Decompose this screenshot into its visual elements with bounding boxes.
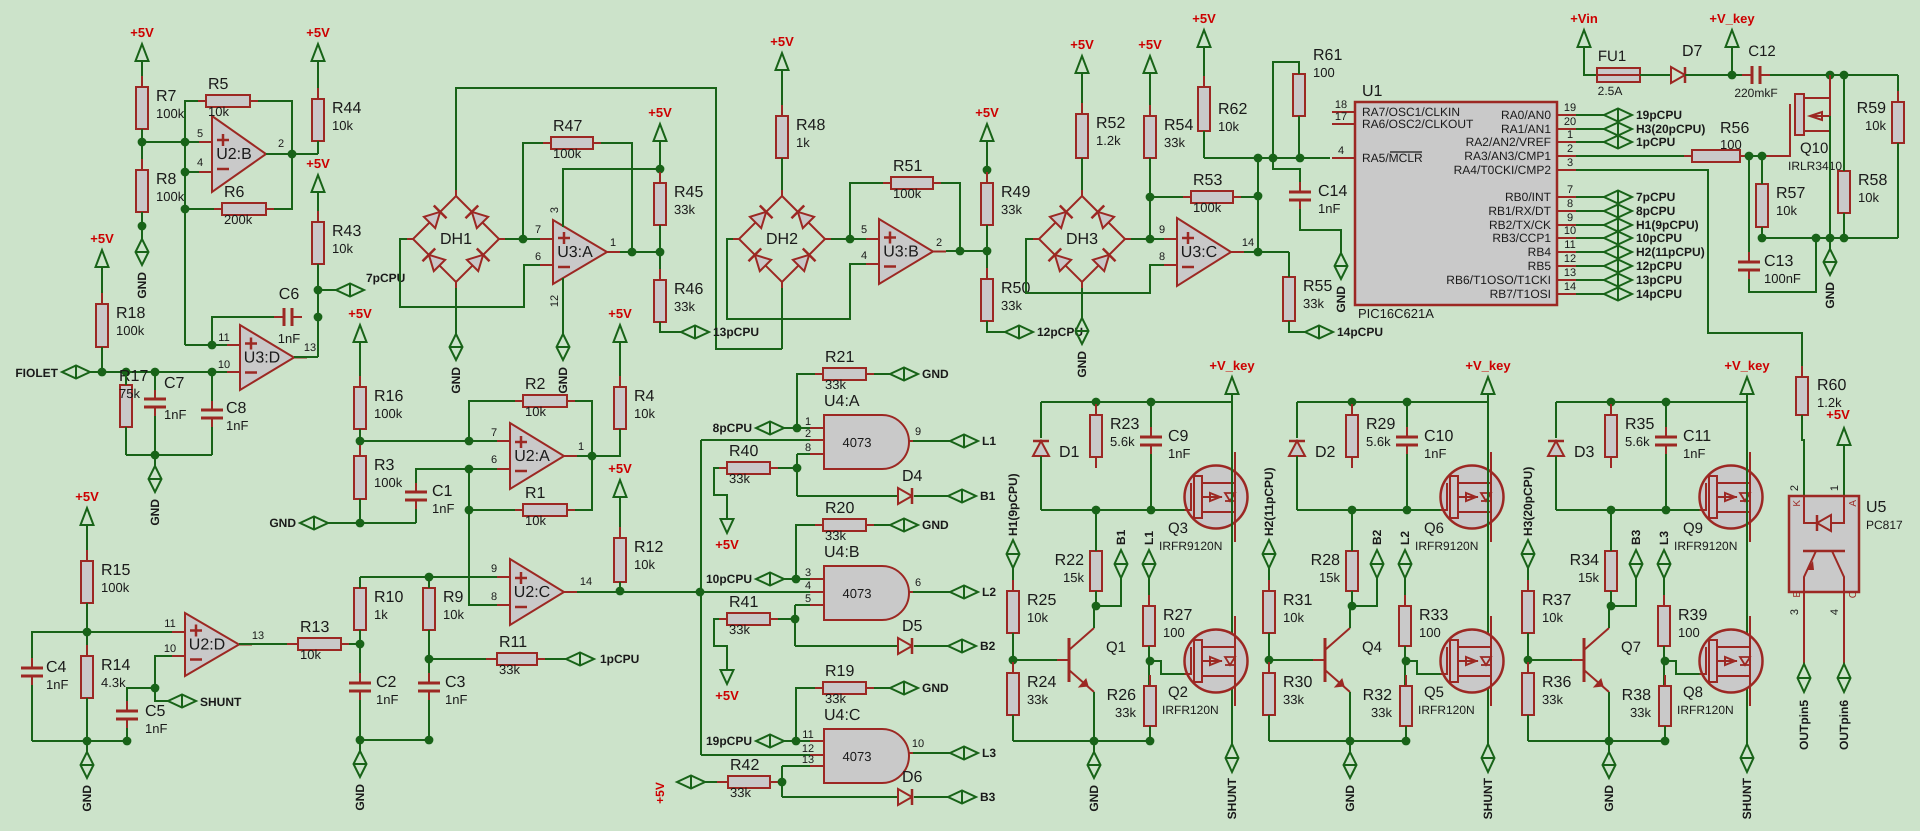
- svg-text:R59: R59: [1857, 100, 1886, 117]
- capacitor C7: [154, 389, 156, 398]
- svg-text:C14: C14: [1318, 183, 1347, 200]
- resistor R21: [812, 373, 823, 375]
- svg-text:+5V: +5V: [130, 25, 154, 40]
- svg-text:9: 9: [1159, 224, 1165, 236]
- svg-text:5.6k: 5.6k: [1366, 434, 1391, 449]
- pin 9 RB2/TX/CK: [1557, 224, 1576, 226]
- svg-text:B3: B3: [980, 790, 996, 804]
- wire pin 4: [1843, 592, 1845, 664]
- svg-text:B2: B2: [1370, 529, 1384, 545]
- ground (stage Q9): [1608, 741, 1610, 752]
- resistor R57: [1761, 173, 1763, 184]
- resistor R27: [1148, 595, 1150, 606]
- wire pin 4 net: [1204, 157, 1330, 159]
- wire: [1012, 633, 1014, 673]
- wire: [1296, 456, 1298, 510]
- wire: [660, 322, 681, 332]
- svg-text:GND: GND: [1343, 785, 1357, 812]
- svg-text:L3: L3: [982, 746, 996, 760]
- net flag L2: [950, 586, 978, 599]
- svg-text:8: 8: [1567, 198, 1573, 210]
- wire gnd rail: [360, 739, 429, 741]
- wire pin 3: [563, 169, 660, 227]
- wire output 13: [239, 643, 298, 645]
- svg-text:E: E: [1792, 591, 1803, 598]
- svg-text:RA4/T0CKI/CMP2: RA4/T0CKI/CMP2: [1454, 163, 1552, 177]
- net flag 1pCPU: [1576, 141, 1604, 143]
- svg-text:Q8: Q8: [1683, 684, 1703, 701]
- wire DH3 right: [1131, 238, 1164, 240]
- svg-text:DH3: DH3: [1066, 231, 1098, 248]
- svg-text:33k: 33k: [1542, 692, 1563, 707]
- net flag SHUNT (stage Q3): [1226, 744, 1239, 772]
- resistor R6: [211, 208, 222, 210]
- svg-text:15k: 15k: [1319, 570, 1340, 585]
- net flag GND (R20): [890, 519, 918, 532]
- wire gnd rail: [126, 454, 212, 456]
- wire gate: [1150, 661, 1185, 674]
- svg-text:33k: 33k: [1001, 202, 1022, 217]
- svg-text:R40: R40: [729, 443, 758, 460]
- svg-text:H3(20pCPU): H3(20pCPU): [1636, 122, 1705, 136]
- svg-text:2: 2: [1789, 485, 1801, 491]
- resistor R34: [1610, 540, 1612, 551]
- svg-text:H3(20pCPU): H3(20pCPU): [1521, 467, 1535, 536]
- svg-text:R18: R18: [116, 305, 145, 322]
- wire collector: [1350, 606, 1352, 628]
- svg-text:+5V: +5V: [608, 461, 632, 476]
- svg-text:14pCPU: 14pCPU: [1636, 287, 1682, 301]
- svg-text:7: 7: [1567, 184, 1573, 196]
- svg-text:R1: R1: [525, 485, 546, 502]
- svg-text:R9: R9: [443, 589, 464, 606]
- svg-text:1: 1: [610, 237, 616, 249]
- pin 2 RA3/AN3/CMP1: [1557, 155, 1576, 157]
- svg-text:+5V: +5V: [975, 105, 999, 120]
- svg-text:10k: 10k: [634, 406, 655, 421]
- svg-text:2: 2: [805, 428, 811, 440]
- svg-text:7pCPU: 7pCPU: [1636, 190, 1675, 204]
- svg-text:8pCPU: 8pCPU: [713, 421, 752, 435]
- svg-text:IRFR120N: IRFR120N: [1418, 703, 1475, 717]
- wire pin 5: [142, 141, 199, 143]
- net flag 7pCPU: [336, 284, 364, 297]
- wire emitter: [1608, 692, 1610, 741]
- svg-text:RB2/TX/CK: RB2/TX/CK: [1489, 218, 1551, 232]
- svg-text:5: 5: [197, 128, 203, 140]
- wire: [101, 347, 103, 372]
- resistor R51: [880, 182, 891, 184]
- pin 12 RB5: [1557, 265, 1576, 267]
- pin 18 RA7/OSC1/CLKIN: [1332, 111, 1355, 113]
- svg-text:C6: C6: [279, 286, 300, 303]
- svg-text:FIOLET: FIOLET: [15, 366, 58, 380]
- svg-text:14pCPU: 14pCPU: [1337, 325, 1383, 339]
- wire collector: [1609, 606, 1611, 628]
- svg-text:L3: L3: [1657, 531, 1671, 545]
- op-amp U3:D: [240, 325, 294, 390]
- svg-text:SHUNT: SHUNT: [1481, 777, 1495, 819]
- svg-text:33k: 33k: [825, 691, 846, 706]
- wire +V_key rail: [1556, 401, 1747, 403]
- wire: [914, 796, 948, 798]
- transistor Q1: [1068, 638, 1071, 682]
- svg-text:RB0/INT: RB0/INT: [1505, 190, 1552, 204]
- node C6 right: [314, 313, 323, 322]
- wire: [317, 264, 319, 357]
- resistor R32: [1405, 675, 1407, 686]
- node out U2:B: [288, 150, 297, 159]
- svg-text:GND: GND: [148, 499, 162, 526]
- node pin5 junction: [138, 138, 147, 147]
- op-amp U3:C: [1177, 218, 1231, 286]
- bridge DH3: [1039, 196, 1125, 282]
- svg-text:1k: 1k: [796, 135, 810, 150]
- svg-text:GND: GND: [449, 367, 463, 394]
- svg-text:1: 1: [578, 441, 584, 453]
- wire: [1406, 454, 1408, 510]
- svg-text:4: 4: [1829, 609, 1841, 615]
- resistor R50: [986, 268, 988, 279]
- resistor R24: [1012, 662, 1014, 673]
- capacitor C5: [126, 701, 128, 710]
- transistor Q5 IRFR120N: [1441, 630, 1504, 693]
- svg-text:H1(9pCPU): H1(9pCPU): [1636, 218, 1699, 232]
- resistor R30: [1268, 662, 1270, 673]
- wire R11 line: [429, 658, 489, 660]
- wire: [155, 688, 168, 701]
- resistor R13: [287, 643, 298, 645]
- resistor R12: [619, 527, 621, 538]
- resistor R35: [1610, 404, 1612, 415]
- wire: [796, 525, 815, 579]
- svg-text:100k: 100k: [156, 106, 185, 121]
- wire: [523, 143, 543, 239]
- wire: [359, 429, 361, 456]
- svg-text:GND: GND: [269, 516, 296, 530]
- svg-text:19pCPU: 19pCPU: [706, 734, 752, 748]
- resistor R7: [141, 76, 143, 87]
- wire: [714, 468, 727, 519]
- wire: [1527, 715, 1529, 741]
- wire: [1664, 726, 1666, 741]
- wire: [784, 427, 810, 429]
- svg-text:11: 11: [164, 618, 175, 630]
- svg-text:1: 1: [1567, 129, 1573, 141]
- wire: [1298, 116, 1300, 158]
- svg-text:R31: R31: [1283, 592, 1312, 609]
- svg-text:R33: R33: [1419, 607, 1448, 624]
- svg-text:1nF: 1nF: [1318, 201, 1340, 216]
- wire: [659, 225, 661, 280]
- wire: [428, 700, 430, 740]
- svg-text:6: 6: [535, 251, 541, 263]
- svg-text:L1: L1: [1142, 531, 1156, 545]
- wire: [1012, 715, 1014, 741]
- capacitor C10: [1406, 402, 1408, 428]
- svg-text:Q3: Q3: [1168, 520, 1188, 537]
- fuse FU1: [1597, 68, 1640, 82]
- svg-text:10k: 10k: [300, 647, 321, 662]
- ground (Q10): [1829, 238, 1831, 249]
- wire: [1095, 591, 1097, 606]
- wire: [1150, 454, 1152, 510]
- wire: [1288, 252, 1290, 277]
- resistor R19: [812, 687, 823, 689]
- wire: [1148, 646, 1150, 686]
- node R13/R10: [356, 640, 365, 649]
- svg-text:C1: C1: [432, 483, 453, 500]
- pin 4 RA5/MCLR: [1332, 157, 1355, 159]
- svg-text:GND: GND: [922, 518, 949, 532]
- net flag H1(9pCPU): [1576, 224, 1604, 226]
- svg-text:Q6: Q6: [1424, 520, 1444, 537]
- wire drain column: [1746, 402, 1748, 744]
- pin 8 RB1/RX/DT: [1557, 210, 1576, 212]
- svg-text:10k: 10k: [443, 607, 464, 622]
- pin 13 RB6/T1OSO/T1CKI: [1557, 279, 1576, 281]
- resistor R41: [716, 618, 727, 620]
- capacitor C4: [31, 658, 33, 667]
- svg-text:+5V: +5V: [648, 105, 672, 120]
- svg-text:+Vin: +Vin: [1570, 11, 1598, 26]
- svg-text:75k: 75k: [119, 386, 140, 401]
- svg-text:33k: 33k: [1371, 705, 1392, 720]
- svg-text:R49: R49: [1001, 184, 1030, 201]
- svg-text:10k: 10k: [208, 104, 229, 119]
- wire out 10: [913, 752, 950, 754]
- svg-text:R45: R45: [674, 184, 703, 201]
- wire gnd rail: [1013, 740, 1150, 742]
- ground (DH1): [455, 288, 457, 323]
- wire output 13: [294, 356, 318, 358]
- svg-text:4: 4: [861, 250, 867, 262]
- svg-text:14: 14: [1564, 281, 1576, 293]
- svg-text:R60: R60: [1817, 377, 1846, 394]
- svg-text:U5: U5: [1866, 499, 1887, 516]
- pin 11 RB4: [1557, 251, 1576, 253]
- resistor R8: [141, 159, 143, 170]
- svg-text:220mkF: 220mkF: [1734, 86, 1777, 100]
- svg-text:C2: C2: [376, 674, 397, 691]
- svg-text:GND: GND: [1602, 785, 1616, 812]
- resistor R38: [1664, 675, 1666, 686]
- wire pin 12 line: [701, 754, 810, 756]
- net flag L1: [950, 435, 978, 448]
- svg-text:+5V: +5V: [348, 306, 372, 321]
- svg-text:33k: 33k: [1027, 692, 1048, 707]
- resistor R1: [512, 509, 523, 511]
- svg-text:33k: 33k: [674, 202, 695, 217]
- wire: [1610, 510, 1612, 551]
- svg-text:33k: 33k: [1303, 296, 1324, 311]
- svg-text:C4: C4: [46, 659, 67, 676]
- svg-text:IRFR9120N: IRFR9120N: [1415, 539, 1478, 553]
- svg-text:100: 100: [1720, 137, 1742, 152]
- svg-text:R3: R3: [374, 457, 395, 474]
- wire: [796, 454, 798, 496]
- svg-text:R54: R54: [1164, 117, 1193, 134]
- svg-text:+5V: +5V: [1826, 407, 1850, 422]
- svg-text:R25: R25: [1027, 592, 1056, 609]
- wire gate: [1762, 134, 1790, 156]
- svg-text:R28: R28: [1311, 552, 1340, 569]
- wire feedback bus: [184, 142, 186, 345]
- wire DH1 left route: [400, 239, 540, 307]
- svg-text:19: 19: [1564, 102, 1576, 114]
- svg-text:2: 2: [936, 237, 942, 249]
- svg-text:10k: 10k: [1776, 203, 1797, 218]
- capacitor C14: [1299, 182, 1301, 191]
- svg-text:1: 1: [1829, 485, 1841, 491]
- net flag B3: [948, 791, 976, 804]
- svg-text:1nF: 1nF: [432, 501, 454, 516]
- wire: [1268, 715, 1270, 741]
- wire gnd rail: [32, 740, 127, 742]
- wire: [125, 372, 127, 385]
- svg-text:DH1: DH1: [440, 231, 472, 248]
- resistor R11: [486, 658, 497, 660]
- svg-text:33k: 33k: [1283, 692, 1304, 707]
- wire: [86, 698, 88, 741]
- wire drain column: [1231, 402, 1233, 744]
- svg-text:SHUNT: SHUNT: [1225, 777, 1239, 819]
- resistor R48: [781, 105, 783, 116]
- svg-text:17: 17: [1335, 111, 1347, 123]
- diode D2: [1296, 402, 1298, 438]
- net flag OUTpin5: [1798, 664, 1811, 692]
- svg-text:Q10: Q10: [1800, 140, 1828, 157]
- svg-text:7: 7: [491, 427, 497, 439]
- svg-text:10k: 10k: [332, 241, 353, 256]
- svg-text:PIC16C621A: PIC16C621A: [1358, 306, 1434, 321]
- svg-text:RA2/AN2/VREF: RA2/AN2/VREF: [1466, 135, 1551, 149]
- ground (C2): [359, 740, 361, 751]
- diode D6: [898, 789, 912, 805]
- wire DH3 left route: [1026, 239, 1164, 293]
- wire Q10 column: [1829, 75, 1831, 116]
- wire: [428, 577, 430, 588]
- svg-text:100k: 100k: [156, 189, 185, 204]
- net flag SHUNT: [168, 695, 196, 708]
- ground (C7): [154, 455, 156, 466]
- svg-text:1nF: 1nF: [226, 418, 248, 433]
- bridge DH2: [739, 196, 825, 282]
- svg-text:1pCPU: 1pCPU: [1636, 135, 1675, 149]
- resistor R18: [101, 293, 103, 304]
- svg-text:4: 4: [805, 580, 811, 592]
- svg-text:10k: 10k: [1865, 118, 1886, 133]
- svg-text:R14: R14: [101, 657, 130, 674]
- svg-text:D2: D2: [1315, 444, 1336, 461]
- resistor R33: [1404, 595, 1406, 606]
- wire gnd rail: [1269, 740, 1406, 742]
- wire: [1149, 726, 1151, 741]
- svg-text:SHUNT: SHUNT: [1740, 777, 1754, 819]
- svg-text:R26: R26: [1107, 687, 1136, 704]
- svg-text:U3:A: U3:A: [557, 244, 593, 261]
- wire output 14: [577, 591, 810, 593]
- svg-text:U4:C: U4:C: [824, 707, 860, 724]
- svg-text:Q9: Q9: [1683, 520, 1703, 537]
- svg-text:+5V: +5V: [306, 156, 330, 171]
- svg-text:RA1/AN1: RA1/AN1: [1501, 122, 1551, 136]
- svg-text:IRLR3410: IRLR3410: [1788, 159, 1842, 173]
- svg-text:R32: R32: [1363, 687, 1392, 704]
- svg-text:13: 13: [304, 342, 316, 354]
- resistor R4: [619, 376, 621, 387]
- wire +V_key rail: [1041, 401, 1232, 403]
- svg-text:GND: GND: [922, 367, 949, 381]
- ic U1 PIC16C621A: [1355, 102, 1557, 305]
- svg-text:8pCPU: 8pCPU: [1636, 204, 1675, 218]
- net flag 14pCPU: [1305, 326, 1333, 339]
- svg-text:RB7/T1OSI: RB7/T1OSI: [1490, 287, 1551, 301]
- wire: [987, 321, 1005, 332]
- wire: [469, 401, 515, 441]
- svg-text:R24: R24: [1027, 674, 1056, 691]
- svg-text:RA5/MCLR: RA5/MCLR: [1362, 151, 1423, 165]
- svg-text:R55: R55: [1303, 278, 1332, 295]
- capacitor C2: [359, 673, 361, 682]
- ground (C14): [1340, 242, 1342, 253]
- svg-text:+5V: +5V: [1192, 11, 1216, 26]
- svg-text:33k: 33k: [729, 622, 750, 637]
- pin 3 RA4/T0CKI/CMP2: [1557, 169, 1576, 171]
- svg-text:11: 11: [802, 729, 813, 741]
- svg-text:33k: 33k: [674, 299, 695, 314]
- svg-text:1nF: 1nF: [445, 692, 467, 707]
- resistor R47: [540, 142, 551, 144]
- wire: [1095, 510, 1097, 551]
- net flag 10pCPU: [1576, 237, 1604, 239]
- svg-text:100k: 100k: [374, 406, 403, 421]
- svg-text:10k: 10k: [634, 557, 655, 572]
- wire pin 12: [562, 278, 564, 323]
- resistor R37: [1527, 580, 1529, 591]
- wire: [1300, 209, 1341, 242]
- capacitor C6: [274, 316, 283, 318]
- resistor R59: [1897, 91, 1899, 102]
- wire: [1149, 158, 1151, 239]
- wire: [1640, 74, 1671, 76]
- power +5V down (R41): [721, 670, 734, 684]
- power +5V down (R40): [721, 519, 734, 533]
- resistor R29: [1351, 404, 1353, 415]
- svg-text:1nF: 1nF: [1168, 446, 1190, 461]
- svg-text:13: 13: [802, 754, 814, 766]
- svg-text:IRFR9120N: IRFR9120N: [1159, 539, 1222, 553]
- ground (U3:A): [562, 323, 564, 334]
- wire: [778, 618, 795, 620]
- pin 7 RB0/INT: [1557, 196, 1576, 198]
- net flag B2: [948, 640, 976, 653]
- svg-text:C: C: [1848, 591, 1859, 598]
- pin 14 RB7/T1OSI: [1557, 293, 1576, 295]
- wire: [796, 688, 815, 742]
- wire DH3 bottom: [1081, 288, 1083, 307]
- wire: [1748, 156, 1750, 253]
- transistor Q7: [1583, 638, 1586, 682]
- svg-text:L1: L1: [982, 434, 996, 448]
- svg-text:14: 14: [1242, 237, 1254, 249]
- svg-text:R48: R48: [796, 117, 825, 134]
- svg-text:+5V: +5V: [90, 231, 114, 246]
- svg-text:9: 9: [915, 426, 921, 438]
- svg-text:RB3/CCP1: RB3/CCP1: [1492, 231, 1551, 245]
- wire: [416, 469, 497, 483]
- svg-text:100: 100: [1678, 625, 1700, 640]
